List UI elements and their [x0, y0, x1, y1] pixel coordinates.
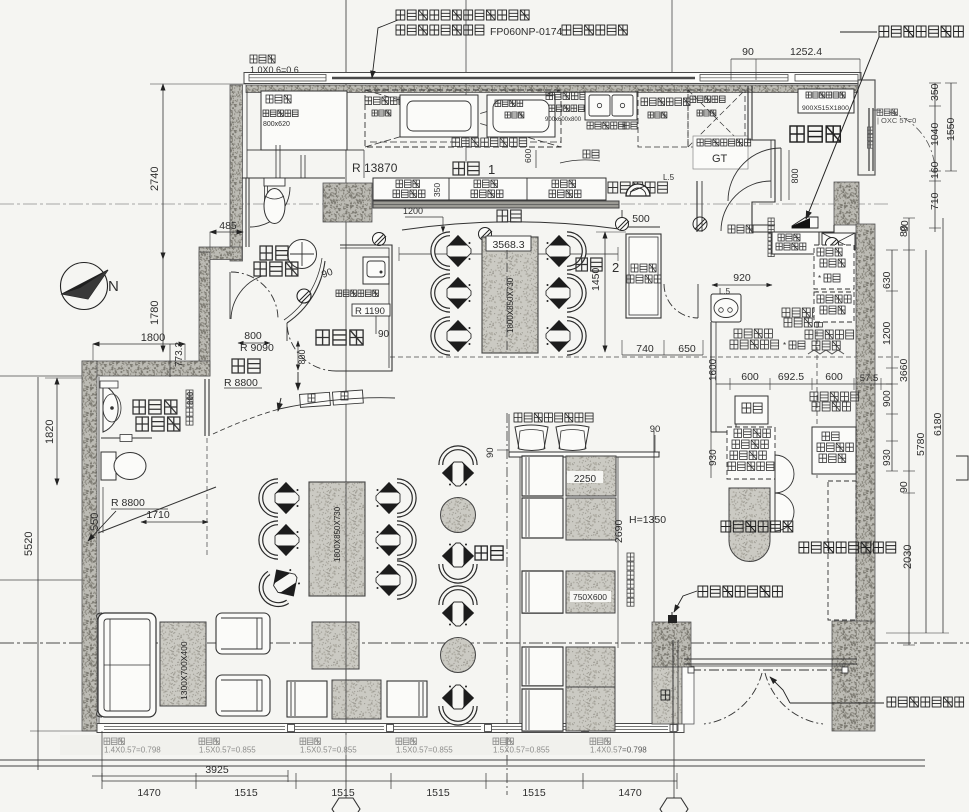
changing room wall inner step	[752, 140, 775, 225]
chair upper-right 1	[546, 234, 584, 268]
svg-text:1200: 1200	[403, 206, 423, 216]
existing distribution board black box	[792, 217, 818, 228]
service counter vertical	[710, 322, 712, 432]
kitchen1 left inner wall line	[246, 92, 248, 178]
svg-text:650: 650	[678, 343, 696, 355]
svg-text:N: N	[108, 278, 119, 295]
kitchen2 label	[576, 258, 602, 271]
antique furniture dashed box	[828, 481, 856, 620]
wall vertical x199	[199, 252, 210, 376]
dumbwaiter X box	[822, 233, 855, 250]
baby sink box	[363, 257, 389, 284]
fire alarm leader and label	[674, 591, 697, 612]
svg-text:1515: 1515	[426, 787, 450, 799]
svg-text:| OXC 57=0: | OXC 57=0	[877, 116, 916, 125]
work table labels kitchen1	[396, 180, 420, 188]
grid line vertical top x=672	[671, 0, 673, 86]
kitchen1 counter row	[373, 178, 606, 200]
changing room wall left	[747, 86, 749, 140]
svg-text:90: 90	[742, 46, 754, 58]
ice machine chip label	[814, 245, 854, 289]
right wall window	[868, 108, 870, 171]
changing room door arc	[728, 148, 781, 201]
tana label	[661, 690, 670, 700]
womens toilet label	[260, 246, 288, 260]
wall block right of changing room	[834, 182, 859, 225]
grid bubble hexagon A	[332, 798, 360, 812]
svg-text:1200: 1200	[881, 321, 893, 345]
womens toilet stall partition	[264, 178, 266, 206]
grid line vertical dashed x=507	[506, 413, 508, 795]
dim 1820 vertical	[56, 378, 58, 485]
chair lower-right 1	[376, 481, 414, 515]
hatched wall block nursing top	[323, 183, 372, 222]
mf toilet bowl	[101, 452, 116, 480]
side chair left of table2	[287, 681, 327, 717]
svg-text:1780: 1780	[149, 301, 161, 325]
smoke window label right	[877, 109, 897, 116]
mf toilet sliding door	[204, 379, 206, 436]
entrance door arcs dashed	[704, 673, 762, 724]
espresso machine label	[805, 330, 854, 339]
left bottom vertical dim lines	[101, 731, 103, 781]
chair upper-left 3	[433, 319, 471, 353]
square table below	[312, 622, 359, 669]
changing room bottom wall	[752, 225, 834, 232]
right edge bracket symbol	[956, 456, 968, 480]
sweets dolce showcase dashed box	[727, 427, 775, 479]
mf toilet handrail	[101, 437, 152, 439]
svg-text:90: 90	[650, 424, 661, 435]
wall right column upper	[858, 80, 875, 175]
register box	[735, 396, 768, 424]
round table B	[441, 638, 476, 673]
dishwasher dashed box	[688, 90, 745, 147]
bench counter top line	[509, 452, 659, 457]
womens toilet door arcs	[231, 272, 278, 319]
svg-text:1515: 1515	[522, 787, 546, 799]
right dim line x943	[942, 218, 944, 633]
svg-text:R 8800: R 8800	[224, 377, 258, 389]
centre dashed line y=357 dining	[390, 356, 902, 358]
side chair right of table2	[387, 681, 427, 717]
svg-text:600: 600	[825, 371, 843, 383]
anteroom label	[232, 359, 260, 373]
display pill	[729, 488, 770, 562]
wall left upper	[230, 85, 243, 261]
bench seat vertical text	[627, 553, 634, 561]
svg-text:773.3: 773.3	[174, 342, 185, 367]
shelf wall block	[652, 622, 691, 667]
2250 label	[567, 471, 603, 483]
womens toilet basin circle	[288, 240, 317, 269]
dim 1780 vertical	[162, 259, 164, 352]
svg-text:160: 160	[929, 161, 941, 179]
locker box	[798, 89, 854, 113]
svg-text:485: 485	[219, 220, 237, 232]
fire shutter dash line	[691, 669, 845, 671]
two-bowl sink new label	[810, 392, 859, 401]
svg-text:5780: 5780	[915, 432, 927, 456]
bottom window band	[97, 724, 684, 733]
booth column boundary lines	[519, 457, 521, 723]
bench rows D E	[522, 647, 563, 686]
svg-text:L.5: L.5	[663, 173, 675, 182]
cold table label	[546, 92, 604, 100]
svg-text:3568.3: 3568.3	[492, 239, 524, 251]
svg-text:600: 600	[523, 149, 533, 163]
wall right column mid	[856, 224, 875, 624]
fire alarm symbol	[668, 615, 677, 623]
lower dining table 1800X850X730	[309, 482, 365, 596]
wall top main band	[246, 85, 860, 93]
800 arrow anteroom	[297, 372, 299, 390]
fire door label	[728, 225, 753, 233]
svg-text:1600: 1600	[708, 358, 719, 381]
right dim line x892	[891, 250, 893, 471]
fire partition note line1	[396, 10, 529, 20]
svg-text:350: 350	[929, 83, 941, 101]
svg-text:2740: 2740	[149, 167, 161, 191]
light wall arc	[402, 222, 619, 230]
svg-text:90: 90	[378, 329, 390, 340]
svg-text:5520: 5520	[23, 532, 35, 556]
svg-text:3660: 3660	[898, 358, 910, 382]
vertical text on window right wall	[868, 127, 874, 134]
svg-text:1252.4: 1252.4	[790, 46, 822, 58]
svg-text:930: 930	[708, 449, 719, 466]
armchair top	[216, 613, 270, 654]
svg-text:350: 350	[432, 183, 442, 197]
svg-text:900x600x800: 900x600x800	[545, 117, 582, 123]
anteroom shelves	[300, 390, 364, 407]
grid line horizontal left y=376	[0, 375, 82, 377]
column symbol light wall left	[479, 228, 492, 241]
svg-text:1800X850X730: 1800X850X730	[333, 506, 342, 562]
svg-text:930: 930	[882, 449, 893, 466]
svg-text:*: *	[818, 274, 821, 283]
coffee machine box	[814, 292, 854, 322]
svg-text:1300X700X400: 1300X700X400	[179, 641, 189, 700]
grid bubble hexagon B	[660, 798, 688, 812]
top window band	[244, 73, 861, 84]
svg-text:H=1350: H=1350	[629, 514, 666, 526]
two-bowl sink box	[585, 92, 637, 120]
svg-text:1450: 1450	[590, 267, 602, 291]
svg-text:2250: 2250	[574, 474, 597, 485]
mf toilet label	[133, 400, 177, 414]
upper water heater label	[608, 182, 667, 193]
leader existing board	[806, 37, 879, 219]
light wall label	[497, 210, 521, 222]
svg-text:R 1190: R 1190	[355, 306, 385, 317]
sofa two-seat	[98, 613, 156, 717]
bench row C	[522, 571, 563, 613]
cold table label svc	[782, 308, 820, 317]
chair lower-right 2	[376, 523, 414, 557]
chair upper-right 2	[546, 276, 584, 310]
svg-text:710: 710	[929, 192, 941, 210]
nursing door arc	[286, 323, 288, 341]
svg-text:R 9090: R 9090	[240, 342, 274, 354]
armchair bottom	[216, 675, 270, 716]
wall step horizontal y247	[199, 247, 242, 260]
upper dining table 1800X850X730	[482, 237, 538, 353]
kitchen equipment row outline	[247, 149, 364, 151]
svg-text:800: 800	[790, 168, 800, 183]
bottom dim row	[102, 780, 677, 782]
svg-text:800: 800	[297, 349, 307, 364]
centre dashed line x=817 service	[816, 283, 818, 478]
service door double arcs	[775, 455, 794, 531]
column symbol nursing top	[373, 233, 386, 246]
svg-text:1.0X0.6=0.6: 1.0X0.6=0.6	[250, 65, 299, 75]
chair lower-left 3 tilted	[254, 561, 305, 611]
IH konro label	[495, 100, 523, 107]
compass north symbol	[61, 263, 108, 310]
womens toilet entry door arc	[250, 187, 290, 227]
sofa table 1300X700X400	[160, 622, 206, 706]
svg-text:3925: 3925	[205, 764, 229, 776]
svg-text:1515: 1515	[234, 787, 258, 799]
svg-text:1800: 1800	[141, 332, 165, 344]
shelf tana box	[652, 667, 682, 724]
mf toilet inner wall line	[98, 377, 100, 723]
partition line below fridge	[363, 150, 365, 178]
fire door arc	[721, 181, 771, 231]
svg-text:6180: 6180	[932, 412, 944, 436]
chair upper-right 3	[546, 319, 584, 353]
grid line horizontal left y=580	[0, 579, 95, 581]
svg-text:900: 900	[882, 390, 893, 407]
grid line horizontal dash-dot y=204	[0, 203, 890, 205]
svg-text:900X515X1800: 900X515X1800	[802, 105, 849, 112]
void table label	[641, 98, 690, 106]
smoke window labels bottom	[104, 738, 124, 745]
svg-text:R 13870: R 13870	[352, 161, 398, 175]
fire partition note line2	[396, 25, 484, 35]
svg-text:90: 90	[898, 481, 910, 493]
svg-text:1710: 1710	[146, 509, 170, 521]
door arc kitchen2 side	[664, 284, 698, 318]
column symbol light wall right	[616, 218, 629, 231]
svg-text:1470: 1470	[137, 787, 161, 799]
service counter label	[734, 329, 772, 338]
top smoke window label	[250, 55, 275, 63]
equipment rounded box 2	[487, 95, 555, 137]
svg-text:750X600: 750X600	[573, 592, 607, 602]
1450 dim vertical	[604, 232, 606, 352]
svg-text:692.5: 692.5	[778, 371, 804, 383]
round table A	[441, 498, 476, 533]
svg-text:500: 500	[632, 213, 650, 225]
fire shutter leader	[770, 677, 790, 703]
svg-text:1550: 1550	[945, 117, 957, 141]
right top dim lines	[934, 83, 936, 232]
svg-text:740: 740	[636, 343, 654, 355]
svg-text:2690: 2690	[613, 519, 625, 543]
corridor dashes below door	[206, 438, 208, 558]
svg-text:FP060NP-0174: FP060NP-0174	[490, 26, 563, 38]
bottom boundary double line	[0, 759, 925, 761]
existing board label	[879, 26, 963, 37]
entrance storefront lines	[684, 658, 857, 660]
bench booth rows	[522, 456, 563, 496]
grid line vertical x=672 lower	[673, 622, 675, 798]
right dim line x909	[908, 218, 910, 645]
grid overlay line through lower tables	[345, 483, 347, 719]
chair lower-right 3	[376, 563, 414, 597]
square table 2	[332, 680, 381, 719]
750X600 label	[570, 591, 611, 602]
antique furniture label	[799, 542, 896, 553]
window swing arc dashed	[873, 110, 935, 171]
baby bed label	[336, 290, 378, 297]
vertical text on changing room wall	[768, 218, 774, 225]
svg-text:600: 600	[741, 371, 759, 383]
svg-text:57.5: 57.5	[860, 373, 879, 384]
highlight band over smoke labels	[60, 735, 620, 755]
hood2 box stainless hood GT	[693, 136, 748, 169]
grid line horizontal dash-dot y=643	[0, 642, 969, 644]
svg-text:R 8800: R 8800	[111, 497, 145, 509]
new cold table box	[812, 427, 856, 474]
grid line vertical A x=346	[345, 0, 347, 798]
svg-text:2030: 2030	[902, 545, 914, 569]
womens toilet walls	[245, 178, 247, 247]
corridor dashed arc	[213, 409, 279, 434]
svg-text:1040: 1040	[929, 122, 941, 146]
chair lower-left 1	[261, 481, 299, 515]
chair upper-left 1	[433, 234, 471, 268]
svg-text:800: 800	[244, 330, 262, 342]
wall right entrance block	[832, 621, 875, 731]
mf toilet basin	[103, 385, 118, 432]
hood1 dashed outline with cross	[365, 90, 561, 147]
svg-text:1820: 1820	[44, 420, 56, 444]
svg-text:1: 1	[488, 162, 495, 177]
dim 5520 vertical	[37, 377, 39, 770]
svg-text:1470: 1470	[618, 787, 642, 799]
column symbol corridor	[297, 289, 311, 303]
curved corridor wall R9090	[287, 261, 325, 323]
work table new box kitchen2	[772, 232, 819, 254]
child chair label	[514, 413, 593, 422]
diagonal corridor wall	[98, 487, 216, 533]
fridge box	[261, 91, 347, 150]
column symbol fire door	[693, 217, 707, 231]
800 dim changing room	[788, 150, 790, 200]
svg-text:2: 2	[612, 260, 619, 275]
wall pair below fire door	[696, 181, 698, 232]
nursing room walls	[336, 245, 392, 371]
svg-text:*: *	[783, 341, 786, 350]
changing room label	[790, 126, 840, 142]
child chairs	[515, 425, 548, 451]
guest seating label	[475, 546, 503, 560]
leader fire partition	[372, 20, 398, 78]
svg-text:GT: GT	[712, 153, 728, 165]
fryer label	[365, 97, 406, 105]
svg-text:550: 550	[89, 513, 101, 531]
gutter sokko label	[583, 150, 599, 158]
3568.3 dim line	[399, 253, 618, 255]
svg-text:1515: 1515	[331, 787, 355, 799]
fire shutter label	[887, 697, 964, 707]
equipment white box 1	[400, 95, 478, 137]
left wall pair at shelf	[672, 640, 674, 731]
chair upper-left 2	[433, 276, 471, 310]
svg-text:920: 920	[733, 272, 751, 284]
svg-text:90: 90	[485, 447, 496, 458]
display label	[721, 521, 793, 532]
nursing room label	[316, 330, 363, 345]
dim 2740 vertical	[162, 84, 164, 259]
svg-text:630: 630	[881, 271, 893, 289]
light wall dark band	[373, 201, 619, 208]
kitchen1 room label	[453, 162, 479, 175]
corridor curve at shelves	[279, 398, 395, 409]
right dim line x926	[925, 250, 927, 633]
chairs column right of tables	[441, 448, 475, 486]
svg-text:80: 80	[899, 220, 911, 232]
womens toilet bowl	[264, 178, 285, 186]
R1190 box	[352, 304, 390, 316]
chair lower-left 2	[261, 523, 299, 557]
wall horizontal y361	[82, 361, 210, 376]
lowering table erecta box	[626, 234, 661, 318]
svg-text:800x620: 800x620	[263, 121, 290, 128]
wall left lower	[82, 361, 97, 731]
grid overlay dash through upper table	[506, 250, 508, 352]
hood1 label stainless hood	[370, 141, 455, 143]
grid line vertical top x=466	[465, 0, 467, 163]
